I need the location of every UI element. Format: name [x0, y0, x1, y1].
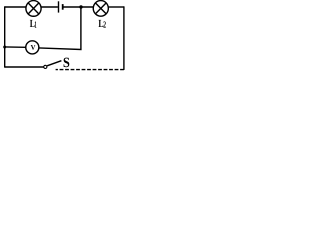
label L1: L — [30, 20, 35, 27]
switch S pivot — [44, 65, 47, 68]
voltmeter circle — [26, 41, 39, 54]
label L2: L — [99, 20, 104, 27]
wire: voltmeter branch vertical + horizontal — [39, 7, 81, 50]
wire: top-left segment — [5, 6, 26, 8]
lamp L2 — [93, 1, 108, 17]
battery long plate — [58, 1, 60, 12]
wire: right side — [123, 6, 125, 70]
wire: L1 to battery — [41, 6, 58, 8]
label V of voltmeter — [31, 45, 36, 50]
node: junction of voltmeter tap on top wire — [79, 5, 82, 8]
wire: voltmeter branch left — [5, 46, 26, 48]
wire: dashed bottom-right — [56, 69, 124, 71]
node: junction of voltmeter branch on left wire — [3, 46, 6, 49]
label S of switch — [64, 58, 70, 68]
lamp L1 — [26, 1, 41, 17]
wire: bottom-left to switch — [5, 66, 44, 68]
wire: left side — [4, 6, 6, 67]
wire: L2 to top-right corner — [108, 6, 124, 8]
wire: battery to L2 — [63, 6, 94, 8]
label L2: subscript 2 — [103, 21, 105, 27]
label L1: subscript 1 — [35, 21, 37, 27]
switch S lever — [47, 61, 61, 66]
battery short plate — [62, 4, 64, 10]
